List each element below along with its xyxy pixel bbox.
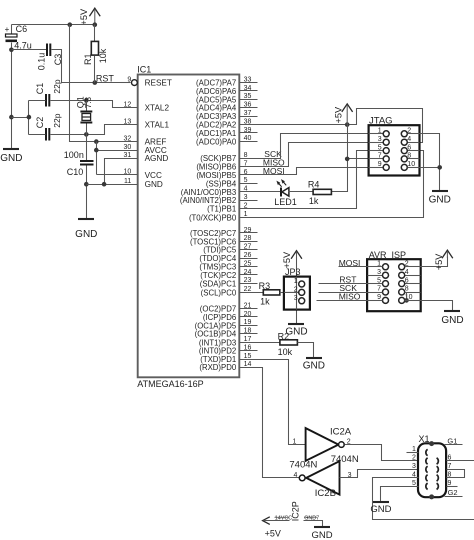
- junction +5V JTAG: [345, 122, 350, 127]
- resistor R3: [240, 281, 299, 307]
- svg-text:GND: GND: [145, 180, 163, 189]
- junction JTAG pin7: [345, 157, 350, 162]
- svg-text:IC2B: IC2B: [315, 488, 336, 499]
- capacitor C10: [64, 150, 94, 177]
- wire JTAG pin 2 to GND: [408, 134, 440, 191]
- junction JTAG gnd: [437, 165, 442, 170]
- resistor R2: [240, 332, 298, 357]
- power IC2P GND pin 7: [304, 515, 333, 540]
- svg-text:LED1: LED1: [274, 197, 297, 207]
- wire C1 left: [29, 100, 46, 102]
- IC1 left pin stubs: [120, 108, 138, 185]
- transistor Q2 : inverter IC2A 7404N: [289, 426, 351, 470]
- wire SCK (PB7) to JTAG pin 1: [240, 134, 384, 159]
- power +5V (JTAG): [334, 104, 353, 125]
- svg-text:GND: GND: [312, 530, 333, 540]
- svg-text:4: 4: [293, 472, 297, 479]
- svg-text:1k: 1k: [309, 196, 319, 206]
- wire GND row to pin 11: [87, 184, 138, 186]
- wire +5V down to JTAG pin7 and R4: [332, 125, 348, 192]
- wire PA2/pin38 to +5V and JTAG pin 4: [240, 109, 423, 143]
- svg-text:IC2A: IC2A: [330, 426, 352, 437]
- junction GND row: [84, 182, 89, 187]
- op-amp U1 : IC1 ATMEGA16-16P body: [137, 64, 239, 389]
- svg-text:(SDA)PC1: (SDA)PC1: [200, 279, 236, 288]
- svg-text:0.1u: 0.1u: [36, 53, 46, 71]
- node RST (ISP): [319, 275, 383, 285]
- svg-text:7.3: 7.3: [84, 97, 93, 109]
- svg-text:11: 11: [124, 178, 131, 185]
- junction RST/R1: [93, 80, 98, 85]
- svg-text:3: 3: [378, 136, 382, 143]
- svg-text:9: 9: [448, 480, 452, 487]
- svg-text:R4: R4: [308, 179, 320, 189]
- svg-text:+5V: +5V: [334, 106, 344, 123]
- svg-text:100n: 100n: [64, 150, 84, 160]
- svg-text:RESET: RESET: [145, 79, 172, 88]
- svg-text:IC2P: IC2P: [291, 501, 301, 521]
- crystal Q1: [76, 96, 93, 134]
- svg-text:GND: GND: [75, 229, 97, 240]
- wire LED1 to R4: [289, 191, 314, 193]
- wire ISP pin 10 to GND: [405, 301, 453, 311]
- svg-text:22p: 22p: [52, 79, 62, 93]
- resistor R1: [83, 25, 108, 83]
- svg-text:6: 6: [407, 144, 411, 151]
- junction GND link: [9, 115, 14, 120]
- svg-text:1k: 1k: [260, 297, 270, 307]
- svg-text:3: 3: [377, 269, 381, 276]
- svg-text:XTAL2: XTAL2: [145, 104, 170, 113]
- svg-text:6: 6: [405, 277, 409, 284]
- wire VCC row: [97, 174, 138, 176]
- wire IC2A output to X1 pin 2: [345, 445, 419, 461]
- connector JTAG: [369, 116, 420, 176]
- power +5V (ISP): [434, 250, 453, 270]
- capacitor C2: [35, 113, 62, 140]
- node MISO (ISP): [317, 291, 383, 301]
- wire X1 pin 7 to pin 8: [447, 470, 465, 478]
- svg-text:9: 9: [378, 161, 382, 168]
- wire gnd tap: [12, 117, 29, 119]
- ground (JP3): [285, 324, 307, 337]
- svg-text:5: 5: [378, 144, 382, 151]
- wire ISP pin 2 to +5V: [405, 257, 448, 267]
- svg-text:22p: 22p: [52, 113, 62, 127]
- wire C1-C2 left vertical: [28, 101, 30, 135]
- svg-text:37: 37: [244, 110, 252, 117]
- wire X1 pin 6: [447, 460, 474, 462]
- svg-text:2: 2: [294, 286, 298, 293]
- wire PB0 to JTAG pin 6: [240, 151, 424, 218]
- svg-text:C10: C10: [67, 167, 84, 177]
- wire X1 pin 1 stub: [407, 452, 419, 454]
- svg-text:8: 8: [405, 286, 409, 293]
- svg-text:10k: 10k: [278, 347, 293, 357]
- svg-text:(RXD)PD0: (RXD)PD0: [199, 363, 236, 372]
- svg-text:2: 2: [412, 455, 416, 462]
- svg-text:4: 4: [407, 136, 411, 143]
- svg-text:1: 1: [292, 439, 296, 446]
- junction at R1 top: [93, 22, 98, 27]
- node G1: [445, 436, 463, 445]
- svg-text:14: 14: [244, 361, 252, 368]
- svg-text:3: 3: [412, 463, 416, 470]
- wire Q1 to C10: [86, 135, 88, 161]
- svg-text:XTAL1: XTAL1: [145, 121, 170, 130]
- svg-text:C1: C1: [35, 83, 45, 95]
- resistor R4: [308, 179, 332, 206]
- svg-text:30: 30: [124, 144, 132, 151]
- junction on +5V rail: [68, 22, 73, 27]
- IC1 left pin labels and numbers: [124, 76, 172, 189]
- wire AREF feed from +5V: [70, 25, 138, 142]
- svg-text:C6: C6: [16, 24, 28, 34]
- svg-text:15: 15: [244, 353, 252, 360]
- ground (C10/AGND): [75, 219, 97, 240]
- svg-text:(ADC0)PA0: (ADC0)PA0: [196, 137, 237, 146]
- svg-text:26: 26: [244, 252, 252, 259]
- svg-text:GND: GND: [370, 504, 391, 515]
- svg-text:+5V: +5V: [434, 253, 444, 270]
- svg-text:1: 1: [378, 128, 382, 135]
- wire IC2B input from X1 pin 3: [340, 470, 419, 478]
- svg-text:10k: 10k: [98, 48, 108, 63]
- svg-text:VCC: VCC: [145, 171, 162, 180]
- wire JTAG pin 7 feed: [348, 158, 384, 160]
- svg-text:R1: R1: [83, 53, 93, 65]
- junction AVCC: [94, 148, 99, 153]
- svg-text:3: 3: [294, 295, 298, 302]
- svg-text:AGND: AGND: [145, 154, 169, 163]
- connector AVR_ISP: [367, 250, 421, 311]
- svg-text:+5V: +5V: [265, 528, 281, 538]
- svg-text:4: 4: [405, 269, 409, 276]
- svg-text:GND: GND: [0, 153, 22, 164]
- svg-text:MISO: MISO: [339, 291, 361, 301]
- ground (R2): [303, 358, 325, 371]
- svg-text:GND: GND: [429, 195, 451, 206]
- svg-text:(T0/XCK)PB0: (T0/XCK)PB0: [189, 213, 237, 222]
- wire RXD/PD0 to IC2B output: [240, 368, 300, 478]
- svg-text:IC1: IC1: [137, 64, 151, 74]
- svg-text:7: 7: [378, 153, 382, 160]
- svg-text:8: 8: [407, 153, 411, 160]
- svg-text:7404N: 7404N: [289, 460, 317, 471]
- wire PB1 to JTAG pin 5: [240, 151, 384, 209]
- svg-text:R2: R2: [278, 332, 290, 342]
- wire R2 to GND: [298, 343, 314, 358]
- capacitor C1: [35, 79, 62, 106]
- svg-text:8: 8: [244, 152, 248, 159]
- capacitor C6: [5, 24, 32, 51]
- svg-text:GND: GND: [303, 360, 325, 371]
- power IC2P VCC pin 14 with +5V arrow: [263, 516, 293, 539]
- power +5V (top left): [79, 8, 100, 25]
- wire AGND drop: [105, 159, 138, 185]
- LED LED1: [240, 179, 297, 207]
- node SCK (ISP): [319, 283, 383, 293]
- junction AGND/GND: [102, 182, 107, 187]
- ground (C6/C1/C2): [0, 149, 22, 164]
- node G2: [445, 488, 463, 497]
- wire X1 pin 5 to GND: [381, 487, 419, 502]
- junction AREF/AVCC: [94, 139, 99, 144]
- wire AVCC/VCC vertical: [96, 142, 98, 175]
- wire C6 to GND: [11, 43, 13, 149]
- inverter IC2B 7404N: [293, 454, 358, 499]
- wire MOSI (PB5) to JTAG pin 9: [240, 168, 384, 175]
- svg-text:(T1)PB1: (T1)PB1: [207, 205, 236, 214]
- wire JTAG pin 10 to GND: [408, 167, 440, 169]
- capacitor C3: [36, 44, 63, 71]
- svg-text:GND: GND: [441, 315, 463, 326]
- svg-text:5: 5: [412, 480, 416, 487]
- svg-text:RST: RST: [96, 74, 115, 84]
- junction tap: [27, 115, 32, 120]
- wire AVCC row: [97, 150, 138, 152]
- svg-text:ATMEGA16-16P: ATMEGA16-16P: [137, 379, 203, 389]
- junction Q1 top: [84, 98, 89, 103]
- svg-text:7: 7: [377, 286, 381, 293]
- svg-text:+5V: +5V: [282, 251, 292, 268]
- wire TXD/PD1 to IC2A input: [240, 360, 306, 445]
- ground (JTAG): [429, 191, 451, 206]
- junction ISP pin 10: [404, 298, 409, 303]
- svg-text:(SCL)PC0: (SCL)PC0: [201, 288, 237, 297]
- svg-text:G1: G1: [447, 436, 457, 445]
- connector JP3: [284, 267, 310, 309]
- ground (X1 pin5): [370, 502, 391, 515]
- svg-text:+5V: +5V: [79, 8, 89, 25]
- connector X1 (DB9): [412, 434, 452, 499]
- IC1 right pin labels, numbers and stubs: [180, 76, 258, 372]
- node MOSI (ISP): [339, 258, 383, 268]
- pin 9 RESET inverting bubble and stub: [121, 80, 138, 86]
- wire C1 to Q1/XTAL2: [51, 101, 138, 108]
- wire X1 pin 4 to bottom rail: [373, 478, 474, 520]
- wire to C3: [12, 49, 47, 51]
- wire JP3 vertical (pin1 to +5V, pin3 to GND): [296, 258, 298, 324]
- svg-text:1: 1: [294, 278, 298, 285]
- svg-text:C2: C2: [35, 117, 45, 129]
- junction C6/C3 net: [9, 48, 14, 53]
- junction Q1 bottom: [84, 132, 89, 137]
- svg-text:7404N: 7404N: [331, 454, 359, 465]
- wire C3 to RST node: [52, 50, 131, 83]
- svg-text:R3: R3: [259, 281, 271, 291]
- wire C2 to Q1 bottom / XTAL1: [51, 125, 138, 135]
- svg-text:G2: G2: [448, 488, 458, 497]
- wire ISP pin 8 to pin 10: [405, 293, 407, 301]
- wire C10 to GND: [86, 166, 88, 219]
- svg-text:+: +: [5, 25, 10, 34]
- power +5V (JP3): [282, 251, 302, 269]
- wire +5V rail: [12, 24, 95, 26]
- wire C2 left: [29, 134, 46, 136]
- wire X1 pin 9 stub: [447, 486, 458, 488]
- ground (ISP): [441, 311, 463, 326]
- wire MISO (PB6) to JTAG pin 3: [240, 143, 384, 167]
